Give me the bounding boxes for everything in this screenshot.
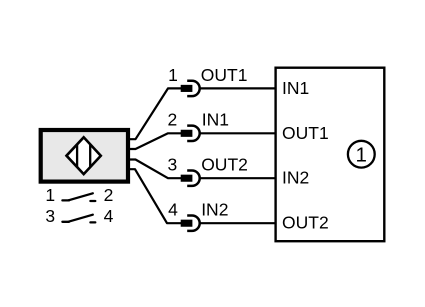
svg-text:OUT2: OUT2 bbox=[282, 213, 329, 233]
svg-text:4: 4 bbox=[104, 206, 114, 226]
svg-text:2: 2 bbox=[167, 110, 177, 130]
svg-text:4: 4 bbox=[168, 200, 178, 220]
svg-text:3: 3 bbox=[167, 155, 177, 175]
svg-text:IN2: IN2 bbox=[201, 200, 228, 220]
svg-text:IN2: IN2 bbox=[282, 168, 309, 188]
svg-text:IN1: IN1 bbox=[282, 78, 309, 98]
svg-text:1: 1 bbox=[168, 65, 178, 85]
svg-text:OUT1: OUT1 bbox=[282, 123, 329, 143]
svg-text:3: 3 bbox=[45, 206, 55, 226]
svg-text:1: 1 bbox=[355, 144, 366, 167]
svg-text:1: 1 bbox=[45, 185, 55, 205]
svg-text:OUT1: OUT1 bbox=[201, 65, 248, 85]
svg-text:IN1: IN1 bbox=[202, 110, 229, 130]
svg-text:2: 2 bbox=[104, 185, 114, 205]
svg-text:OUT2: OUT2 bbox=[201, 155, 248, 175]
